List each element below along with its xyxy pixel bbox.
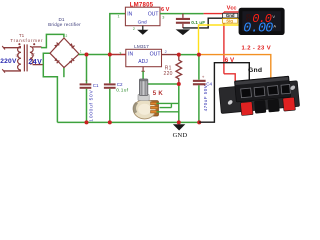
svg-text:470uF 50V: 470uF 50V xyxy=(203,85,208,112)
svg-text:0.00: 0.00 xyxy=(243,21,273,36)
svg-text:D1: D1 xyxy=(59,17,65,22)
potentiometer 5K photo xyxy=(133,79,159,119)
svg-text:+: + xyxy=(85,78,88,83)
wire: secondary bottom stub xyxy=(33,64,45,66)
svg-text:5 K: 5 K xyxy=(153,91,164,97)
svg-text:220V: 220V xyxy=(0,58,17,65)
svg-text:1.2 - 23 V: 1.2 - 23 V xyxy=(242,45,272,51)
ground symbol at C3 xyxy=(176,29,191,35)
wire: R1 bottom to ground rail xyxy=(178,84,180,122)
ground symbol LM7805 xyxy=(137,26,148,35)
svg-text:LM7805: LM7805 xyxy=(130,1,154,8)
svg-text:2: 2 xyxy=(133,27,135,31)
wire: voltmeter signal yellow xyxy=(199,25,239,55)
wire: pot terminal links xyxy=(156,103,178,111)
svg-text:GND: GND xyxy=(173,132,188,139)
svg-text:Transformer: Transformer xyxy=(10,38,43,43)
bridge rectifier D1 xyxy=(50,38,79,68)
voltmeter module M1 xyxy=(239,8,285,37)
svg-text:Gnd: Gnd xyxy=(138,20,147,26)
wire: bridge negative to ground rail xyxy=(43,53,57,122)
wire: output rail orange to terminal xyxy=(199,55,271,81)
svg-text:IN: IN xyxy=(128,52,133,58)
svg-text:6 V: 6 V xyxy=(225,57,235,64)
junction node dots xyxy=(85,53,202,125)
wire: 6V rail green xyxy=(160,13,204,15)
svg-text:1: 1 xyxy=(118,15,120,19)
svg-text:IN: IN xyxy=(127,11,132,17)
capacitor C3 0.1uF xyxy=(176,14,205,28)
diode on top-left arm xyxy=(54,43,59,48)
wire: C4 leads xyxy=(198,55,200,123)
capacitor C1 xyxy=(80,78,99,121)
wire: bridge + output rail xyxy=(79,54,111,56)
svg-text:2: 2 xyxy=(66,34,68,38)
svg-text:V: V xyxy=(272,14,275,19)
wire: 220V primary top lead xyxy=(2,46,21,50)
wire: 6V rail red to Vcc xyxy=(204,12,239,86)
wire: ground bottom rail xyxy=(57,121,199,123)
diode on bottom-left arm xyxy=(54,58,59,63)
svg-text:Gnd: Gnd xyxy=(226,13,235,18)
svg-text:Gnd: Gnd xyxy=(248,67,262,74)
svg-text:L1: L1 xyxy=(16,53,20,57)
wire: feed to LM7805 and C2 branch xyxy=(110,14,126,123)
node Gnd tag xyxy=(223,13,238,18)
svg-text:1000uf 50V: 1000uf 50V xyxy=(88,90,94,122)
svg-text:Sig: Sig xyxy=(226,19,233,24)
svg-text:2: 2 xyxy=(165,50,167,54)
svg-text:A: A xyxy=(273,24,276,29)
svg-text:C1: C1 xyxy=(93,83,99,88)
svg-text:OUT: OUT xyxy=(148,11,159,17)
ground symbol GND main xyxy=(173,124,188,139)
capacitor C4 xyxy=(193,75,213,112)
wire: LM317 OUT stub xyxy=(162,54,179,56)
wire: output rail green xyxy=(179,54,199,56)
transformer T1 xyxy=(18,43,36,71)
svg-text:0.1uf: 0.1uf xyxy=(116,88,129,94)
wire: voltmeter ground black xyxy=(183,18,239,28)
wire: terminal ground black xyxy=(199,63,249,122)
svg-text:C2: C2 xyxy=(117,82,123,87)
svg-text:LM317: LM317 xyxy=(134,44,149,50)
svg-text:Bridge rectifier: Bridge rectifier xyxy=(48,22,81,27)
diode on bottom-right arm xyxy=(69,58,74,63)
node Sig tag xyxy=(223,19,238,24)
wire: ADJ pin down xyxy=(142,67,179,84)
svg-text:6 V: 6 V xyxy=(161,7,170,13)
svg-text:OUT: OUT xyxy=(150,52,162,58)
resistor R1 xyxy=(176,56,182,84)
wire: 220V primary bottom lead xyxy=(2,69,21,73)
terminal block J1 xyxy=(218,75,299,117)
voltage regulator U1 LM7805 xyxy=(125,7,160,26)
svg-text:Vcc: Vcc xyxy=(227,5,237,11)
svg-text:3: 3 xyxy=(119,51,121,55)
diode on top-right arm xyxy=(69,43,74,48)
wire: secondary top to bridge AC1 xyxy=(33,34,64,47)
wire: bridge bottom corner drop xyxy=(63,67,65,78)
svg-text:3: 3 xyxy=(162,16,164,20)
svg-text:1: 1 xyxy=(80,49,82,53)
svg-text:L2: L2 xyxy=(31,52,35,56)
wire: C1 branch xyxy=(86,55,88,123)
capacitor C2 xyxy=(104,82,129,94)
svg-text:+: + xyxy=(202,75,205,80)
wire: red stub to LM317 IN xyxy=(110,54,126,56)
voltage regulator U2 LM317 xyxy=(126,49,162,66)
svg-text:ADJ: ADJ xyxy=(138,59,148,65)
svg-text:220: 220 xyxy=(164,71,173,77)
